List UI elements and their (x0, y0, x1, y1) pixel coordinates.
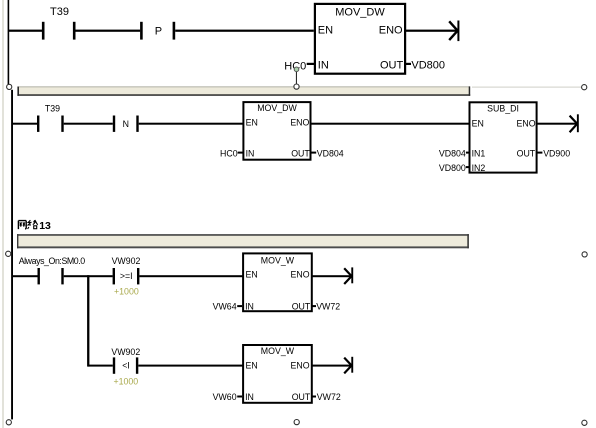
svg-text:SUB_DI: SUB_DI (487, 103, 519, 113)
selection handle mid-left (6, 251, 11, 256)
svg-text:MOV_DW: MOV_DW (335, 6, 385, 18)
label T39 (network 11) (50, 6, 69, 18)
svg-text:HC0: HC0 (220, 148, 238, 158)
selection drop line from HC0 to separator handle (296, 72, 297, 84)
svg-text:VW72: VW72 (316, 301, 340, 311)
svg-text:EN: EN (318, 25, 333, 37)
selection handle green (on HC0) (294, 67, 299, 72)
label T39 (network 12) (45, 103, 60, 113)
contact Always_On:SM0.0 (network 13) (38, 268, 64, 284)
contact T39 (network 12) (37, 116, 64, 132)
operand VW72 (MOV_W OUT, network 13 top) (312, 301, 340, 311)
box SUB_DI (network 12) (470, 102, 537, 173)
operand VD804 (SUB_DI IN1) (439, 148, 470, 158)
wire: contact P to MOV_DW EN (network 11) (175, 30, 314, 32)
wire: rail to contact SM0.0 (network 13) (12, 275, 38, 277)
svg-text:OUT: OUT (517, 148, 536, 158)
label network 13 (CJK drawn as paths) (18, 220, 38, 229)
svg-text:>=I: >=I (120, 271, 133, 281)
svg-text:MOV_W: MOV_W (261, 256, 295, 266)
label Always_On:SM0.0 (network 13) (19, 256, 86, 266)
operand HC0 (network 12 IN) (220, 148, 243, 158)
wire: T39 to contact N (network 12) (64, 123, 113, 125)
constant +1000 (network 13 top) (114, 286, 139, 296)
svg-text:MOV_DW: MOV_DW (257, 103, 297, 113)
network separator bar 2 (17, 234, 469, 248)
open-wire arrow (network 13 top) (344, 267, 353, 284)
svg-text:T39: T39 (45, 103, 60, 113)
svg-text:EN: EN (246, 269, 258, 279)
branch vertical wire (network 13) (87, 275, 89, 366)
operand VW64 (MOV_W IN, network 13 top) (213, 301, 242, 311)
svg-text:<I: <I (122, 361, 130, 371)
svg-text:T39: T39 (50, 6, 69, 18)
svg-text:OUT: OUT (291, 148, 310, 158)
svg-text:ENO: ENO (379, 25, 403, 37)
svg-text:ENO: ENO (290, 118, 309, 128)
selection handle bottom-mid (294, 420, 299, 425)
operand VD800 (SUB_DI IN2) (439, 163, 470, 173)
box MOV_DW (network 11) (315, 4, 405, 74)
wire: MOV_W ENO to arrow (network 13 bottom) (312, 365, 351, 367)
svg-text:VD804: VD804 (439, 148, 466, 158)
svg-text:MOV_W: MOV_W (261, 346, 295, 356)
wire: contact to branch and comparator (network 13 top) (64, 275, 113, 277)
glyph wang3 (18, 221, 26, 230)
contact T39 (network 11) (42, 22, 76, 40)
wire: rail to contact T39 (network 12) (12, 123, 37, 125)
operand VW72 (MOV_W OUT, network 13 bottom) (312, 392, 341, 402)
svg-text:VD804: VD804 (317, 148, 344, 158)
svg-text:N: N (123, 119, 129, 129)
svg-text:IN: IN (318, 59, 329, 71)
operand VD800 (network 11 OUT) (406, 59, 445, 71)
svg-text:Always_On:SM0.0: Always_On:SM0.0 (19, 256, 86, 266)
wire: contact T39 to contact P (76, 30, 141, 32)
contact N negative-edge (network 12) (113, 116, 139, 132)
svg-text:IN: IN (245, 301, 254, 311)
wire: network 11 rail to contact T39 (8, 30, 42, 32)
box MOV_W (network 13 bottom) (243, 345, 312, 403)
svg-text:VW64: VW64 (213, 301, 237, 311)
wire: MOV_DW ENO to SUB_DI EN (network 12) (311, 123, 470, 125)
svg-text:OUT: OUT (292, 301, 311, 311)
constant +1000 (network 13 bottom) (113, 377, 138, 387)
svg-text:IN2: IN2 (472, 163, 486, 173)
operand VD900 (SUB_DI OUT) (536, 148, 570, 158)
window left edge line (2, 0, 4, 428)
open-wire arrow (network 11) (449, 21, 459, 42)
label VW902 (network 13 bottom comparator) (111, 347, 140, 357)
svg-text:ENO: ENO (291, 269, 310, 279)
contact P positive-edge (network 11) (140, 22, 175, 40)
wire: branch to comparator (network 13 bottom) (88, 365, 113, 367)
svg-text:+1000: +1000 (113, 377, 138, 387)
selection rect faint top edge (472, 87, 581, 88)
comparator <I contact (network 13 bottom) (113, 357, 138, 373)
svg-text:ENO: ENO (517, 118, 536, 128)
wire: MOV_DW ENO to right arrow (network 11) (406, 30, 458, 32)
operand VD804 (network 12 OUT) (311, 148, 343, 158)
selection handle bottom-left (6, 420, 11, 425)
open-wire arrow (network 12) (570, 114, 579, 132)
svg-text:VD900: VD900 (543, 148, 570, 158)
selection handle mid-right (582, 252, 587, 257)
operand VW60 (MOV_W IN, network 13 bottom) (213, 392, 242, 402)
selection handle top-mid (294, 84, 299, 89)
svg-text:OUT: OUT (380, 59, 404, 71)
svg-text:+1000: +1000 (114, 286, 139, 296)
svg-text:IN: IN (245, 392, 254, 402)
svg-text:VD800: VD800 (411, 59, 445, 71)
wire: SUB_DI ENO to right arrow (network 12) (536, 123, 577, 125)
box MOV_W (network 13 top) (243, 253, 312, 311)
left power rail (network 11) (8, 0, 10, 84)
svg-text:VW902: VW902 (112, 256, 141, 266)
svg-text:VW60: VW60 (213, 392, 237, 402)
svg-text:IN1: IN1 (472, 148, 486, 158)
wire: comparator to MOV_W EN (network 13 bottom) (138, 365, 243, 367)
wire: MOV_W ENO to arrow (network 13 top) (312, 275, 351, 277)
label network 13 number (39, 220, 51, 232)
glyph luo4 (28, 220, 31, 229)
svg-text:13: 13 (39, 220, 51, 232)
svg-text:IN: IN (246, 148, 255, 158)
box MOV_DW (network 12) (243, 102, 310, 160)
svg-text:EN: EN (246, 361, 258, 371)
selection handle bottom-right (582, 420, 587, 425)
svg-text:OUT: OUT (292, 392, 311, 402)
open-wire arrow (network 13 bottom) (344, 357, 353, 374)
wire: contact N to MOV_DW EN (network 12) (139, 123, 243, 125)
label VW902 (network 13 top comparator) (112, 256, 141, 266)
svg-text:ENO: ENO (291, 361, 310, 371)
selection handle top-left (7, 84, 12, 89)
svg-text:VD800: VD800 (439, 163, 466, 173)
svg-text:VW72: VW72 (317, 392, 341, 402)
left power rail (networks 12-13) (11, 90, 13, 420)
svg-text:P: P (155, 26, 162, 38)
network separator bar 1 (17, 86, 470, 95)
wire: comparator to MOV_W EN (network 13 top) (139, 275, 243, 277)
svg-text:EN: EN (472, 118, 484, 128)
svg-text:EN: EN (246, 118, 258, 128)
selection handle top-right (582, 85, 587, 90)
operand HC0 (network 11 IN) (284, 60, 314, 72)
svg-text:VW902: VW902 (111, 347, 140, 357)
comparator >=I contact (network 13 top) (113, 268, 140, 284)
